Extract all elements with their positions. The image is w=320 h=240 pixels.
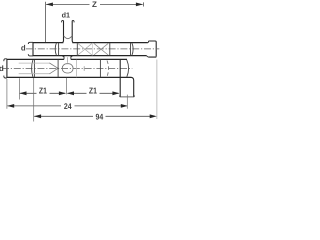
component: hidden pipe end dashed arc <box>107 61 109 77</box>
component: upper pipe right end edge <box>155 42 157 56</box>
component: branch stub top lip right <box>72 21 74 23</box>
component: press zone divider right <box>109 43 111 56</box>
component: lower pipe left socket lip bottom <box>4 76 7 78</box>
wire: Z1 left extension line <box>18 78 20 99</box>
component: elbow outer corner and leg right edge <box>132 77 134 97</box>
svg-text:Z: Z <box>92 0 97 9</box>
component: inserted pipe bore line bottom <box>19 73 50 75</box>
component: lower pipe left socket depth arc <box>32 60 33 77</box>
wire: 94 left extension line <box>33 78 35 122</box>
svg-text:Z1: Z1 <box>39 86 47 96</box>
wire: Z1 left dimension line <box>20 92 66 94</box>
node: 24 arrowhead west <box>7 104 14 108</box>
component: inserted pipe bore line top <box>19 62 50 64</box>
node: Z1 left arrowhead east <box>59 91 66 95</box>
wire: 24 dimension line <box>7 105 127 107</box>
component: leg bottom lip left <box>119 95 121 97</box>
component: lower pipe left socket end line <box>6 59 8 78</box>
component: lower pipe left socket lip top <box>4 59 7 61</box>
component: upper pipe left socket end line <box>32 42 34 56</box>
component: upper pipe right flange bottom edge <box>149 55 157 58</box>
wire: 94 right extension line <box>156 60 158 120</box>
component: lower pipe top edge right part <box>71 58 127 60</box>
component: lower pipe faint divider <box>76 60 78 77</box>
component: lower pipe socket vertical <box>57 60 59 77</box>
component: press zone X1 <box>78 43 92 55</box>
component: branch stub right wall <box>72 21 74 43</box>
component: lower pipe bottom edge <box>7 76 132 78</box>
component: leg bottom socket lip line <box>120 96 134 98</box>
component: upper pipe left socket lip top <box>28 42 33 44</box>
component: branch stub top lip left <box>62 21 64 23</box>
component: upper pipe right socket depth line <box>130 43 132 56</box>
component: upper pipe left socket depth line <box>58 43 60 56</box>
node: 24 arrowhead east <box>121 104 128 108</box>
wire: leg axis extension line <box>126 95 128 109</box>
component: lower pipe top edge left part <box>7 58 64 60</box>
svg-text:24: 24 <box>64 102 72 111</box>
svg-text:94: 94 <box>96 113 104 122</box>
wire: dimension Z extension line left <box>45 2 47 43</box>
wire: branch axis tick in section <box>67 57 69 63</box>
component: press cone diagonals <box>49 63 58 74</box>
component: branch socket notch right wall <box>71 57 72 60</box>
wire: upper pipe centerline <box>26 48 159 50</box>
wire: lower pipe centerline <box>2 67 132 69</box>
node: Z1 right arrowhead west <box>67 91 74 95</box>
component: centerline tick <box>83 66 85 71</box>
node: 94 arrowhead west <box>34 114 41 118</box>
component: upper pipe top edge left part <box>33 42 63 44</box>
node: Z1 right arrowhead east <box>112 91 119 95</box>
component: branch stub socket arc <box>64 36 73 39</box>
wire: Z1 right dimension line <box>67 92 118 94</box>
wire: dimension Z end tick <box>143 2 145 6</box>
component: upper pipe right flange bottom step <box>147 56 149 57</box>
component: branch bore stadium <box>62 64 73 73</box>
component: upper pipe left socket lip bottom <box>28 54 33 56</box>
wire: dimension Z line left segment <box>46 3 89 5</box>
component: branch socket notch left wall <box>63 57 64 60</box>
component: upper pipe bottom edge <box>33 55 147 57</box>
node: dimension Z right arrowhead <box>136 3 143 7</box>
component: lower pipe left socket depth line <box>33 60 35 77</box>
component: upper pipe left socket depth arc <box>55 43 56 56</box>
component: upper pipe top edge right part <box>72 42 148 44</box>
svg-text:d: d <box>21 44 26 53</box>
component: upper pipe right flange top edge <box>149 41 157 42</box>
wire: 24 left extension line <box>6 79 8 109</box>
wire: branch axis extension line <box>65 78 67 95</box>
node: 94 arrowhead east <box>150 114 157 118</box>
component: elbow leg left edge <box>119 60 121 97</box>
node: dimension Z left arrowhead <box>46 3 53 7</box>
component: press zone divider left <box>76 43 78 56</box>
component: elbow inner arc <box>127 60 129 77</box>
svg-text:Z1: Z1 <box>89 86 97 96</box>
component: lower pipe right socket vertical <box>99 60 101 77</box>
node: Z1 left arrowhead west <box>19 91 26 95</box>
svg-text:d1: d1 <box>62 11 70 20</box>
component: press zone X2 <box>94 43 108 55</box>
wire: dimension Z line right segment <box>100 3 143 5</box>
component: press zone divider middle <box>92 43 94 56</box>
component: upper pipe right flange top step <box>147 41 150 43</box>
svg-text:d: d <box>0 64 4 73</box>
component: branch stub left wall <box>62 21 64 43</box>
wire: 94 dimension line <box>34 115 152 117</box>
component: leg bottom lip right <box>133 95 135 97</box>
component: upper pipe right socket depth arc <box>132 43 133 56</box>
